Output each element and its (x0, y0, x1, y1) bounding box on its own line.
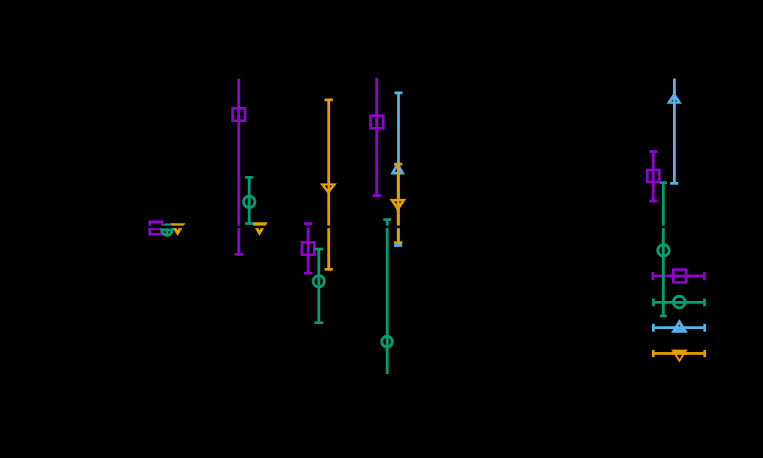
blue series: right-group up-triangle (671, 319, 688, 333)
purple series: point D errorbar (373, 78, 381, 197)
purple series: point E square (646, 169, 661, 184)
purple series: point C errorbar (304, 222, 312, 274)
purple series: right-group horizontal errorbar (651, 272, 705, 280)
orange series: right-group horizontal errorbar (652, 350, 706, 357)
green series: point C circle (313, 274, 324, 288)
green series: point B errorbar (245, 176, 253, 225)
purple series: point D square (369, 114, 384, 129)
green series: point E circle (658, 243, 669, 257)
purple series: point B errorbar (235, 79, 243, 256)
purple series: point A square and x-error bar (148, 221, 164, 236)
green series: right-group horizontal errorbar (652, 299, 706, 307)
green series: point B circle (244, 195, 255, 209)
green series: right-group circle (672, 296, 686, 308)
orange series: point C down-triangle (320, 183, 337, 194)
purple series: point B square (231, 107, 246, 122)
orange series: point A down-triangle (170, 223, 185, 236)
purple series: right-group square (672, 268, 687, 283)
green series: point D circle (382, 335, 393, 349)
black series: wide horizontal errorbar line (visible only where it crosses colored elements) (105, 226, 688, 229)
blue series: right-group horizontal errorbar (652, 324, 706, 332)
blue series: point E up-triangle (667, 92, 682, 104)
blue series: point E errorbar (670, 79, 678, 185)
green series: point A circle with x/y error bars (161, 224, 173, 235)
orange series: point D errorbar (394, 163, 402, 244)
purple series: point E errorbar (649, 150, 657, 202)
green series: point D errorbar (383, 218, 391, 374)
blue series: point D errorbar (394, 92, 402, 247)
orange series: point B down-triangle (251, 222, 267, 235)
orange series: point C errorbar (325, 99, 333, 271)
orange series: right-group down-triangle (671, 350, 688, 363)
blue series: point D up-triangle (390, 162, 405, 175)
green series: point C errorbar (314, 248, 323, 324)
purple series: point C square (301, 241, 316, 256)
orange series: point D down-triangle (389, 199, 406, 212)
green series: point E errorbar (660, 181, 667, 317)
